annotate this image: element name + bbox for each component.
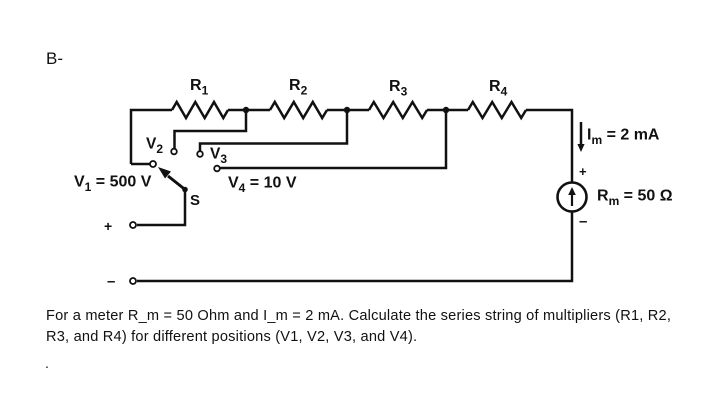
switch S arm with arrowhead — [168, 176, 185, 190]
terminal V1 (open circle) — [150, 161, 156, 167]
svg-text:+: + — [579, 164, 587, 179]
svg-text:+: + — [104, 218, 112, 234]
svg-text:V3: V3 — [210, 146, 227, 167]
wire top-left segment — [131, 110, 172, 164]
wire node-R3R4 to terminal V4 — [220, 110, 446, 168]
wire R2 to R3 — [327, 109, 369, 112]
svg-text:V2: V2 — [146, 136, 163, 157]
svg-text:V1 = 500 V: V1 = 500 V — [74, 174, 152, 195]
wire R3 to R4 — [427, 109, 468, 112]
svg-text:R1: R1 — [190, 77, 209, 98]
resistor R3 — [369, 102, 427, 118]
node after R1 — [243, 107, 249, 113]
resistor R1 — [172, 102, 228, 118]
svg-text:R3, and R4) for different posi: R3, and R4) for different positions (V1,… — [46, 329, 417, 345]
svg-text:Im = 2 mA: Im = 2 mA — [587, 127, 660, 148]
wire left vertical to V1 terminal — [131, 163, 150, 166]
node after R3 — [443, 107, 449, 113]
wire R4 to right corner and down to meter — [526, 110, 572, 182]
svg-text:–: – — [579, 213, 587, 230]
switch pivot — [182, 187, 188, 193]
terminal minus (open circle) — [130, 278, 136, 284]
svg-text:–: – — [107, 273, 115, 290]
terminal V2 (open circle) — [171, 149, 177, 155]
svg-text:.: . — [45, 355, 49, 371]
current arrow Im — [580, 122, 583, 146]
terminal V3 (open circle) — [197, 151, 203, 157]
svg-text:R3: R3 — [389, 78, 408, 99]
wire node-R1R2 to terminal V2 — [175, 110, 247, 149]
wire R1 to R2 — [228, 109, 270, 112]
resistor R2 — [270, 102, 327, 118]
terminal plus (open circle) — [130, 222, 136, 228]
terminal V4 (open circle) — [214, 166, 220, 172]
svg-text:Rm = 50 Ω: Rm = 50 Ω — [597, 188, 673, 209]
svg-text:R4: R4 — [489, 78, 508, 99]
resistor R4 — [468, 102, 526, 118]
svg-text:For a meter R_m = 50 Ohm and I: For a meter R_m = 50 Ohm and I_m = 2 mA.… — [46, 308, 671, 324]
svg-text:S: S — [190, 192, 200, 209]
wire node-R2R3 to terminal V3 — [200, 110, 347, 151]
wire pivot down to plus terminal — [137, 190, 185, 226]
meter Rm (current-source circle with up arrow) — [558, 183, 587, 212]
svg-text:R2: R2 — [289, 77, 308, 98]
wire meter to bottom rail — [137, 212, 572, 281]
svg-text:B-: B- — [46, 49, 63, 68]
svg-text:V4 = 10 V: V4 = 10 V — [228, 175, 297, 196]
node after R2 — [344, 107, 350, 113]
